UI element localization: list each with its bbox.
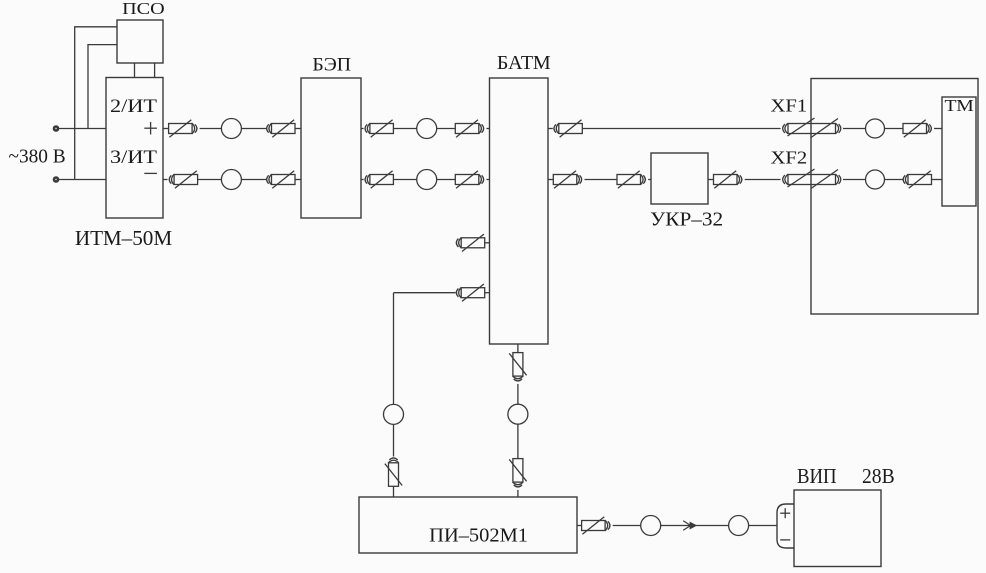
connector X7 (line1, plug left) <box>554 120 582 137</box>
wire BEP to X5 (line1) <box>361 128 364 130</box>
block TM <box>942 97 976 206</box>
block UKR-32 <box>651 153 708 204</box>
minus sign in VIP terminal <box>780 539 790 541</box>
label XF2 <box>771 148 808 168</box>
wire X15 to PI box <box>393 486 395 497</box>
connector X11 (line2, socket right) <box>714 171 742 188</box>
wire coupler to X17 <box>517 424 519 458</box>
label PI-502M1 <box>429 524 528 546</box>
svg-text:~380 В: ~380 В <box>9 146 66 168</box>
connector X6 (line2, socket right) <box>455 171 483 188</box>
connector X8 (line1, socket right) <box>903 120 931 137</box>
connector X17 (vertical, socket down) <box>509 459 526 487</box>
wire X13 to BATM <box>485 242 490 244</box>
wire BATM to X7 (line1) <box>548 128 553 130</box>
wire X14 to BATM <box>485 292 490 294</box>
svg-text:ТМ: ТМ <box>945 96 974 115</box>
svg-text:БЭП: БЭП <box>312 54 351 75</box>
wire UKR-32 to X11 <box>708 179 714 181</box>
wire coupler to X6 (line1) <box>437 128 456 130</box>
label ITM-50M <box>75 226 173 250</box>
wire X8 to TM (line1) <box>934 128 942 130</box>
wire X12 to TM (line2) <box>932 179 943 181</box>
wire L1 to ITM-50M <box>59 128 107 130</box>
cable coupler circle (BATM-PI chain) <box>508 404 528 424</box>
svg-text:3/ИТ: 3/ИТ <box>110 147 157 168</box>
cable coupler circle (TM line2) <box>866 170 885 189</box>
label 28V <box>862 464 895 488</box>
label BEP <box>312 54 351 75</box>
label BATM <box>497 52 551 74</box>
cable coupler circle (ITM-BEP line1) <box>221 119 241 139</box>
label 3/IT <box>110 147 157 168</box>
connector X5 (line1, plug left) <box>365 120 393 137</box>
terminal input L2 (~380V) <box>54 178 58 182</box>
wire coupler to VIP terminal <box>749 525 777 527</box>
wire X4 to BEP (line2) <box>295 179 301 181</box>
cable coupler circle (PI left chain) <box>384 404 404 424</box>
connector X9 (line2, socket right) <box>553 171 581 188</box>
connector X18 (socket right) <box>582 517 610 534</box>
cable coupler circle (BEP-BATM line2) <box>417 170 437 190</box>
wire branch to PSO (inner) <box>88 45 117 129</box>
label PSO <box>122 0 165 18</box>
svg-text:ПИ–502М1: ПИ–502М1 <box>429 524 528 546</box>
wire X6 to BATM (line1) <box>487 128 490 130</box>
wire coupler to X4 (line2) <box>241 179 266 181</box>
wire coupler to X2 (line1) <box>241 128 266 130</box>
wire BATM bottom to X16 <box>517 344 519 353</box>
connector pair XF1 <box>783 118 841 138</box>
connector X6 (line1, socket right) <box>455 120 483 137</box>
block VIP <box>794 490 881 567</box>
wire X3 to coupler (line2) <box>198 179 222 181</box>
wire BATM to X9 (line2) <box>548 179 553 181</box>
wire X2 to BEP (line1) <box>295 128 301 130</box>
cable coupler circle (BEP-BATM line1) <box>417 119 437 139</box>
wire X10 to UKR-32 <box>648 179 651 181</box>
svg-text:ИТМ–50М: ИТМ–50М <box>75 226 173 250</box>
wire coupler to X15 <box>393 424 395 456</box>
terminal input L1 (~380V) <box>54 127 58 131</box>
wire PI to X18 <box>577 525 582 527</box>
plus sign in VIP terminal <box>780 508 790 518</box>
label ~380 V <box>9 146 66 168</box>
wire X5 to coupler (line2) <box>393 179 417 181</box>
block BATM <box>490 78 549 344</box>
wire X11 to XF2 <box>745 179 781 181</box>
label VIP <box>797 464 837 488</box>
connector X10 (line2, socket right) <box>617 171 645 188</box>
minus sign in ITM <box>144 172 157 174</box>
terminal block of VIP (+/-) <box>777 504 794 548</box>
wire X1 to coupler (line1) <box>200 128 222 130</box>
label TM <box>945 96 974 115</box>
wire BEP to X5 (line2) <box>361 179 364 181</box>
connector X5 (line2, plug left) <box>365 171 393 188</box>
svg-text:БАТМ: БАТМ <box>497 52 551 74</box>
svg-text:ВИП: ВИП <box>797 464 837 488</box>
wire coupler to X6 (line2) <box>437 179 456 181</box>
connector X13 (BATM left stub) <box>456 234 484 251</box>
block ITM-50M <box>106 78 163 219</box>
long wire X7 to XF1 <box>582 128 780 130</box>
svg-text:ПСО: ПСО <box>122 0 165 18</box>
wire X6 to BATM (line2) <box>487 179 490 181</box>
wire coupler to X12 (line2) <box>885 179 904 181</box>
connector X12 (line2, plug left) <box>903 171 931 188</box>
wire ITM to X1 (line1) <box>163 128 169 130</box>
enclosure box (TM unit) <box>811 79 978 315</box>
block PI-502M1 <box>359 497 577 553</box>
wire coupler to arrow <box>661 525 729 527</box>
svg-text:УКР–32: УКР–32 <box>650 208 723 230</box>
label XF1 <box>771 96 808 116</box>
wire X9 to X10 (line2) <box>585 179 618 181</box>
wire branch to PSO (outer) <box>75 27 117 180</box>
plus sign in ITM <box>144 122 157 135</box>
wire X5 to coupler (line1) <box>393 128 417 130</box>
label UKR-32 <box>650 208 723 230</box>
block PSO <box>117 20 163 63</box>
svg-text:XF2: XF2 <box>771 148 808 168</box>
label 2/IT <box>110 96 157 117</box>
arrow marker (cable direction) <box>683 521 696 531</box>
wire XF1 to coupler (line1) <box>843 128 866 130</box>
connector X1 (line1, socket right) <box>169 120 197 137</box>
wire vertical (PI branch down) <box>393 293 395 405</box>
wire X16 to coupler <box>517 384 519 404</box>
svg-text:XF1: XF1 <box>771 96 808 116</box>
block BEP <box>301 78 361 218</box>
wire PSO-ITM stub 2 <box>154 63 156 78</box>
connector pair XF2 <box>783 169 841 189</box>
wire L2 to ITM-50M <box>59 179 107 181</box>
svg-text:2/ИТ: 2/ИТ <box>110 96 157 117</box>
wire X17 to PI box <box>517 490 519 497</box>
connector X3 (line2, plug left) <box>169 171 197 188</box>
cable coupler circle (TM line1) <box>866 119 885 138</box>
wire ITM to X3 (line2) <box>163 179 168 181</box>
connector X15 (vertical, plug up) <box>385 458 402 486</box>
cable coupler circle (PI-VIP 2) <box>729 516 749 536</box>
wire PSO-ITM stub 1 <box>134 63 136 78</box>
connector X16 (vertical, socket down) <box>509 353 526 381</box>
wire XF2 to coupler (line2) <box>843 179 866 181</box>
svg-text:28В: 28В <box>862 464 895 488</box>
connector X4 (line2, plug left) <box>267 171 295 188</box>
cable coupler circle (ITM-BEP line2) <box>221 170 241 190</box>
wire coupler to X8 (line1) <box>885 128 904 130</box>
connector X14 (BATM left) <box>456 284 484 301</box>
connector X2 (line1, plug left) <box>267 120 295 137</box>
wire X18 to coupler <box>613 525 641 527</box>
cable coupler circle (PI-VIP 1) <box>641 516 661 536</box>
wire PI to X14 (horizontal) <box>394 292 456 294</box>
